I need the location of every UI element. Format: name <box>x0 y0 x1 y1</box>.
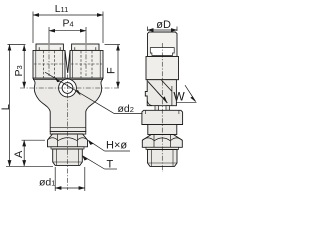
side neck <box>148 125 177 135</box>
svg-text:øD: øD <box>156 19 171 31</box>
side support tab left <box>155 106 159 111</box>
dim L11 extension lines <box>32 12 34 44</box>
dim L vertical line <box>9 45 11 167</box>
hex nut front <box>48 134 88 147</box>
side support tab right <box>166 106 170 111</box>
side hex <box>142 135 182 148</box>
dim W arrow outside <box>185 85 196 101</box>
side flange <box>142 110 183 124</box>
dim phi-d1 line <box>55 187 85 189</box>
svg-text:L: L <box>0 104 12 110</box>
svg-text:L11: L11 <box>55 3 69 15</box>
side W section <box>145 80 176 106</box>
left port centerline <box>48 45 50 76</box>
washer under hex <box>51 147 84 149</box>
dim W extension line <box>177 101 197 103</box>
svg-text:W: W <box>173 90 185 104</box>
top extension line left <box>8 44 26 46</box>
washer above hex <box>50 132 86 135</box>
centerline vertical front <box>67 75 69 191</box>
svg-text:F: F <box>106 67 118 74</box>
dim P3 vertical line <box>23 45 25 88</box>
right port centerline <box>85 45 87 76</box>
svg-text:A: A <box>13 150 25 158</box>
svg-text:P3: P3 <box>13 65 25 76</box>
centerline horizontal through junction <box>20 87 120 89</box>
dim A top extension <box>22 139 46 141</box>
svg-text:ød1: ød1 <box>39 177 55 189</box>
dim F vertical line <box>117 45 119 88</box>
front view: left port body <box>33 50 65 78</box>
leader T <box>83 156 105 169</box>
side body <box>146 57 179 80</box>
branch bottom-left fillet <box>147 101 152 106</box>
V notch between ports <box>65 50 70 73</box>
dim A vertical line <box>23 140 25 166</box>
branch inner vertical <box>171 86 173 106</box>
branch diagonal edge <box>148 81 167 103</box>
leader H-phi <box>88 140 104 151</box>
flange line above hex <box>50 126 86 128</box>
threaded stud front <box>53 149 83 165</box>
branch upper flat edge <box>161 80 172 91</box>
bottom baseline extension <box>6 165 53 167</box>
front view: left port cap <box>36 44 63 50</box>
tube depth dashed line <box>34 63 64 65</box>
leader phi-d2 <box>45 72 114 113</box>
right port bore dashed <box>80 51 82 78</box>
junction shoulder line <box>33 79 103 81</box>
svg-text:ød2: ød2 <box>118 103 134 115</box>
dim W arrow inside <box>158 92 168 102</box>
dim P4 line <box>49 30 86 32</box>
dim F top extension <box>105 44 121 46</box>
dim L11 line <box>33 14 103 16</box>
side centerline <box>161 43 163 172</box>
side cap <box>148 32 178 57</box>
dim phi-D line <box>148 29 178 31</box>
svg-text:H×ø: H×ø <box>106 140 127 152</box>
left port bore dashed <box>43 51 45 78</box>
svg-text:P4: P4 <box>63 18 74 30</box>
Y body bell <box>33 78 103 131</box>
junction circle inner <box>62 83 73 94</box>
side release collar <box>150 48 174 56</box>
dim phi-d1 extensions <box>54 167 56 191</box>
side washer <box>146 147 179 149</box>
side threaded stud <box>148 150 178 167</box>
svg-text:T: T <box>107 159 114 171</box>
front view: right port body <box>70 50 103 78</box>
junction circle outer (phi d2) <box>59 79 77 97</box>
front view: right port cap <box>72 44 99 50</box>
